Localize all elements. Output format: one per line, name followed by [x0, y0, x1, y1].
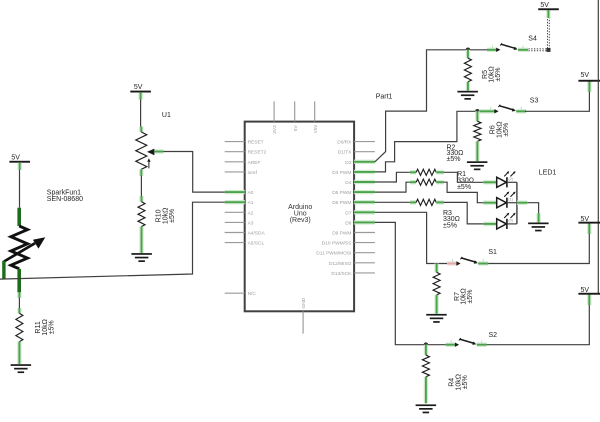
svg-text:Part1: Part1 — [376, 93, 393, 100]
wire S1 to 5V — [488, 224, 589, 264]
wire 5V to SparkFun1 — [17, 163, 22, 208]
wire R3 to LED anode 3 — [444, 202, 483, 224]
svg-text:D6 PWM: D6 PWM — [332, 200, 351, 206]
svg-text:VIN: VIN — [313, 125, 319, 134]
svg-text:±5%: ±5% — [49, 320, 56, 334]
svg-text:A0: A0 — [248, 190, 254, 196]
svg-text:D3 PWM: D3 PWM — [332, 170, 351, 176]
ground (R10) — [131, 253, 152, 262]
svg-text:5V: 5V — [581, 72, 590, 79]
power +5V (S2) — [578, 287, 600, 295]
svg-text:RESET2: RESET2 — [248, 150, 267, 156]
svg-text:A2: A2 — [248, 210, 254, 216]
wire D3 to S3 junction — [375, 111, 484, 172]
resistor R11 10k — [16, 313, 56, 364]
svg-text:AREF: AREF — [248, 160, 261, 166]
svg-text:A3: A3 — [248, 220, 254, 226]
power +5V (S4) — [538, 2, 559, 10]
power +5V (SparkFun1) — [9, 154, 30, 162]
wire D2 to S4 junction — [375, 50, 487, 162]
svg-text:S1: S1 — [488, 249, 497, 256]
wire D8 to S2 junction — [375, 222, 446, 344]
wire 5V right rail — [597, 0, 599, 294]
svg-text:D5 PWM: D5 PWM — [332, 190, 351, 196]
svg-text:A1: A1 — [248, 200, 254, 206]
svg-text:S2: S2 — [489, 332, 498, 339]
wire LED cathode to ground — [517, 203, 539, 223]
svg-text:5V: 5V — [134, 84, 143, 91]
LED LED1 (x3 diodes) — [483, 170, 556, 230]
svg-text:D0/RX: D0/RX — [337, 140, 352, 146]
wire U1 wiper to A0 — [154, 152, 224, 193]
ground (R6) — [467, 161, 488, 170]
ground (R4) — [416, 404, 437, 413]
wire D4 to R1 — [375, 172, 410, 182]
svg-text:D13/SCK: D13/SCK — [331, 271, 352, 277]
svg-text:D7: D7 — [345, 210, 351, 216]
svg-text:±5%: ±5% — [169, 209, 176, 223]
svg-text:(Rev3): (Rev3) — [290, 217, 311, 224]
wire 5V to U1 — [138, 92, 143, 132]
resistor R6 10k — [474, 111, 510, 161]
resistor R1 330 — [410, 169, 474, 191]
wire S3 to 5V rail — [525, 82, 589, 112]
svg-text:±5%: ±5% — [462, 375, 469, 389]
wire D7 to S1 — [375, 212, 447, 263]
node S2 junction — [424, 342, 429, 347]
svg-text:3V3: 3V3 — [272, 125, 278, 134]
svg-text:A4/SDA: A4/SDA — [248, 231, 266, 237]
wire R2 to LED anode 2 — [444, 182, 483, 203]
ground (R7) — [426, 314, 447, 323]
svg-text:SEN-08680: SEN-08680 — [47, 196, 83, 203]
resistor R5 10k — [464, 50, 502, 91]
wire S4 to 5V (dashed ratsnest) — [528, 10, 550, 52]
wire U1 to R10 — [139, 169, 144, 202]
node S3 junction — [475, 109, 480, 114]
svg-text:5V: 5V — [293, 125, 299, 132]
svg-text:5V: 5V — [581, 216, 590, 223]
svg-text:S4: S4 — [528, 36, 537, 43]
svg-text:5V: 5V — [11, 154, 20, 161]
svg-text:ioref: ioref — [248, 170, 258, 176]
resistor R4 10k — [422, 345, 469, 404]
svg-text:D2: D2 — [345, 160, 351, 166]
ground (R11) — [11, 364, 32, 373]
svg-text:±5%: ±5% — [457, 184, 471, 191]
switch S4 — [487, 36, 537, 53]
switch S3 — [479, 97, 538, 113]
svg-text:(0): (0) — [508, 219, 512, 223]
svg-text:D4: D4 — [345, 180, 351, 186]
svg-text:U1: U1 — [162, 112, 171, 119]
svg-text:±5%: ±5% — [467, 290, 474, 304]
resistor R3 330 — [410, 199, 460, 229]
svg-text:D10 PWM/SS: D10 PWM/SS — [322, 241, 352, 247]
svg-text:5V: 5V — [540, 2, 549, 9]
svg-text:±5%: ±5% — [443, 223, 457, 230]
ground (R5) — [457, 91, 478, 100]
resistor R2 330 — [410, 144, 464, 185]
wire D5 to R2 — [375, 182, 410, 192]
wire S2 to 5V — [487, 295, 590, 345]
power +5V (S1) — [578, 216, 600, 224]
svg-text:±5%: ±5% — [447, 156, 461, 163]
photoresistor/softpot SparkFun1 SEN-08680 — [4, 190, 83, 293]
svg-text:LED1: LED1 — [539, 170, 557, 177]
svg-text:A5/SCL: A5/SCL — [248, 241, 265, 247]
power +5V (S3) — [578, 72, 600, 82]
wire softpot wiper to A1 — [0, 202, 225, 279]
svg-text:±5%: ±5% — [503, 123, 510, 137]
ground (LED1) — [528, 223, 549, 232]
svg-text:D11 PWM/MOSI: D11 PWM/MOSI — [316, 251, 351, 257]
svg-text:±5%: ±5% — [495, 68, 502, 82]
switch S1 — [447, 249, 497, 266]
resistor R7 10k — [433, 264, 474, 314]
svg-text:D12/MISO: D12/MISO — [329, 261, 352, 267]
svg-text:D8: D8 — [345, 220, 351, 226]
IC U-Arduino Uno (Rev3) — [225, 101, 375, 333]
resistor R10 10k — [138, 202, 176, 253]
wire softpot to R11 — [17, 292, 21, 313]
potentiometer U1 — [136, 112, 171, 169]
svg-text:(2): (2) — [508, 177, 512, 181]
node S4 junction — [466, 48, 471, 53]
svg-text:(1): (1) — [508, 198, 512, 202]
power +5V (U1) — [130, 84, 151, 92]
svg-text:S3: S3 — [530, 97, 539, 104]
svg-text:D9 PWM: D9 PWM — [332, 231, 351, 237]
svg-text:D1/TX: D1/TX — [338, 150, 352, 156]
wire R1 to LED anode 1 — [444, 172, 483, 182]
svg-text:RESET: RESET — [248, 140, 264, 146]
switch S2 — [446, 332, 497, 347]
svg-text:N/C: N/C — [248, 291, 257, 297]
svg-text:5V: 5V — [581, 287, 590, 294]
node Part1 — [376, 93, 393, 100]
wire D6 to R3 — [375, 201, 410, 203]
svg-text:GND: GND — [301, 297, 307, 308]
